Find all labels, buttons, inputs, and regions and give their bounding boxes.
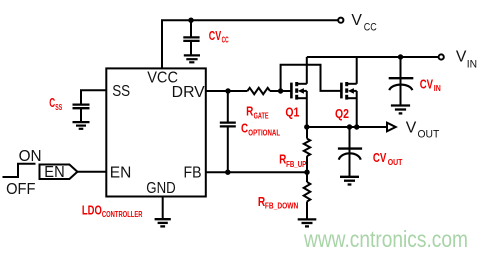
svg-text:www.cntronics.com: www.cntronics.com (303, 226, 468, 252)
svg-text:FB: FB (184, 164, 202, 181)
svg-text:IN: IN (434, 84, 441, 93)
svg-text:CV: CV (373, 151, 387, 165)
svg-text:IN: IN (467, 58, 477, 70)
svg-text:C: C (241, 122, 248, 136)
svg-text:SS: SS (112, 83, 130, 100)
svg-text:CV: CV (209, 29, 222, 43)
svg-text:EN: EN (110, 164, 132, 181)
svg-text:EN: EN (44, 164, 64, 181)
svg-text:V: V (351, 12, 362, 29)
svg-text:CV: CV (420, 77, 434, 91)
svg-text:Q2: Q2 (335, 107, 349, 121)
svg-text:V: V (456, 48, 467, 65)
svg-text:SS: SS (55, 103, 62, 112)
svg-text:DRV: DRV (172, 84, 206, 101)
svg-text:R: R (246, 104, 253, 118)
svg-text:FB_DOWN: FB_DOWN (265, 202, 299, 211)
svg-text:OUT: OUT (418, 129, 440, 141)
svg-text:Q1: Q1 (285, 105, 299, 119)
svg-text:OPTIONAL: OPTIONAL (248, 128, 280, 137)
svg-text:CONTROLLER: CONTROLLER (102, 210, 143, 219)
svg-text:OUT: OUT (388, 158, 403, 167)
svg-text:ON: ON (19, 148, 42, 165)
svg-text:CC: CC (364, 21, 377, 33)
svg-text:GATE: GATE (254, 112, 269, 121)
svg-text:GND: GND (146, 180, 175, 197)
svg-text:LDO: LDO (82, 204, 102, 218)
svg-text:V: V (406, 119, 417, 136)
svg-text:OFF: OFF (6, 181, 35, 198)
svg-text:FB_UP: FB_UP (286, 160, 306, 169)
svg-text:CC: CC (222, 35, 229, 44)
svg-text:C: C (49, 96, 55, 110)
